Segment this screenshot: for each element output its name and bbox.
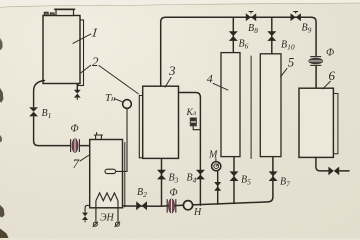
tank 4	[221, 53, 240, 157]
leader 5	[280, 68, 287, 77]
leader 7	[80, 155, 89, 161]
filter F (right, above tank 6)	[309, 57, 323, 66]
svg-text:4: 4	[207, 72, 213, 86]
valve under tank1 (drain)	[74, 90, 81, 98]
tank 7 wall shadow	[124, 143, 126, 208]
wire: feed pipe top (tank3 up, across to right corner, down to filter)	[161, 17, 316, 86]
wire: B1 down and right to filter	[34, 117, 70, 146]
svg-text:5: 5	[288, 55, 295, 70]
leader 3	[165, 77, 172, 88]
wire: B10 drop	[271, 17, 273, 54]
svg-text:3: 3	[168, 63, 176, 78]
pump N	[183, 201, 192, 210]
svg-text:Н: Н	[193, 207, 202, 218]
leader 6	[322, 81, 330, 89]
level line right of tank 4	[250, 56, 252, 159]
solenoid Kl symbol	[190, 118, 196, 126]
wire: tank1 bottom-left to B1	[34, 81, 45, 107]
thermometer Tn circle	[123, 100, 132, 109]
valve B1	[29, 107, 38, 116]
leader lines for number labels	[73, 34, 331, 161]
valve B8	[246, 11, 256, 21]
wire: B5 drop tank4 to pipe	[233, 157, 235, 204]
leader 1	[73, 34, 92, 44]
wire: B6 drop	[232, 17, 234, 54]
heater zigzag	[96, 193, 118, 201]
valve under gauge M	[214, 182, 221, 191]
svg-text:6: 6	[329, 68, 336, 83]
Tn sensor bulb	[105, 169, 116, 173]
valve B5	[230, 171, 239, 181]
wire: B3 drop from tank 3	[161, 158, 163, 206]
svg-text:Тн: Тн	[105, 92, 115, 104]
leader Tn	[114, 99, 123, 103]
valve B7	[269, 171, 278, 181]
tank 1 shadow	[78, 20, 83, 86]
tank 3	[143, 86, 179, 158]
valve at tank6 outlet	[328, 167, 339, 176]
filter F (left, into tank 7)	[71, 139, 80, 153]
svg-text:2: 2	[92, 54, 99, 69]
svg-text:М: М	[208, 150, 218, 161]
svg-text:Ф: Ф	[326, 48, 334, 59]
valve tank7 drain	[82, 213, 88, 220]
tank 5	[260, 54, 281, 157]
valve B9	[291, 11, 301, 21]
valve B3	[157, 170, 166, 180]
valve B2	[136, 201, 147, 210]
tank 6 shadow	[333, 94, 338, 154]
svg-text:ЭН: ЭН	[100, 213, 115, 224]
heater terminal right	[115, 222, 119, 226]
tank 7	[90, 140, 123, 208]
svg-text:Ф: Ф	[71, 124, 79, 135]
leader 4	[213, 83, 229, 90]
wire: tank7 drain elbow	[85, 205, 90, 212]
gauge M	[212, 162, 221, 171]
svg-text:Кл: Кл	[186, 108, 197, 118]
valves (bowties)	[29, 11, 339, 220]
tank 6	[299, 88, 333, 157]
leader 2 (right)	[99, 65, 139, 94]
heater terminal left	[93, 222, 97, 226]
wire: tank3 right side to Kl/B4 line	[179, 93, 201, 206]
svg-text:7: 7	[73, 156, 80, 171]
wire: Kl stub	[193, 126, 200, 130]
leader 2 (left)	[80, 65, 91, 73]
wire: tank6 outlet to right valve	[316, 157, 328, 171]
wire: bottom main pipe tank7 to B7 corner	[123, 157, 273, 207]
filter F (bottom, before pump)	[167, 199, 176, 213]
tank 7 top fitting	[94, 133, 102, 140]
tank 3 left plate	[139, 96, 143, 158]
tank 1 top fittings	[44, 12, 48, 15]
wire: right filter to tank 6	[315, 66, 317, 88]
tank 1 top hatch	[56, 10, 74, 16]
heater element in tank 7	[93, 193, 121, 227]
svg-text:Ф: Ф	[170, 188, 178, 199]
wire: tank1 drain stub	[76, 84, 78, 90]
valve B4	[196, 170, 205, 180]
tank 1	[43, 16, 80, 84]
heater legs	[95, 201, 97, 222]
valve B10	[267, 31, 276, 41]
wire: filter to tank 7	[80, 145, 90, 147]
valve B6	[229, 31, 238, 41]
wire: Tn drop and sensor	[116, 108, 127, 171]
wire: M gauge tap	[217, 171, 219, 204]
